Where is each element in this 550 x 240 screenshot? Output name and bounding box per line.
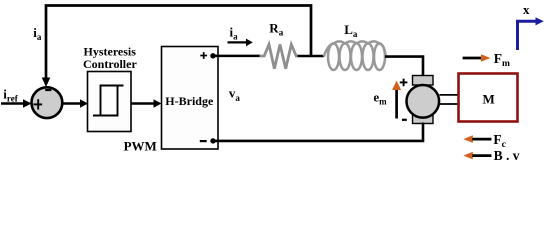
wire summer to hysteresis controller: [63, 102, 81, 105]
motor armature circle: [407, 85, 440, 118]
arrow F_m (motor force): [463, 57, 482, 60]
arrow i_a direction: [228, 41, 247, 43]
wire inductor to motor: [385, 57, 423, 77]
arrow B.v (damping force, leftward): [463, 152, 473, 160]
node minus terminal dot: [210, 138, 215, 143]
motor plus label: [400, 79, 408, 87]
hysteresis relay symbol: [93, 86, 118, 116]
svg-text:B . v: B . v: [494, 148, 520, 163]
arrow F_c (friction force, leftward): [463, 135, 473, 143]
summing junction plus sign: [33, 99, 42, 109]
H-Bridge minus terminal label: [200, 140, 207, 142]
arrow e_m (back EMF, orange tipped up arrow): [395, 90, 398, 119]
wire H-Bridge plus terminal to resistor: [213, 55, 260, 58]
arrowhead into summing junction: [42, 78, 51, 88]
axis x (reference frame, blue): [518, 21, 537, 50]
wire bottom return motor to H-Bridge minus: [213, 123, 423, 141]
summing junction: [32, 87, 63, 118]
svg-text:PWM: PWM: [124, 139, 157, 154]
node plus terminal dot: [210, 53, 215, 58]
svg-text:x: x: [523, 2, 530, 17]
H-Bridge plus terminal label: [200, 52, 207, 59]
motor minus label: [402, 119, 407, 121]
resistor Ra: [260, 44, 299, 68]
H-Bridge block U2: [162, 47, 219, 150]
motor shaft: [440, 94, 460, 96]
hysteresis controller block U1: [88, 72, 132, 132]
motor top brush: [413, 76, 434, 86]
mass block M: [459, 74, 518, 122]
wire feedback loop (node between Ra and La up, across top, down to summer): [46, 6, 311, 80]
summing junction minus sign: [45, 89, 51, 91]
svg-text:H-Bridge: H-Bridge: [165, 94, 214, 108]
svg-text:M: M: [483, 91, 495, 106]
wire resistor to inductor with tap node: [298, 55, 325, 58]
inductor La: [324, 41, 386, 70]
wire hysteresis controller to H-Bridge (PWM signal): [132, 102, 155, 105]
motor bottom brush: [413, 115, 434, 124]
wire input arrow into summer: [1, 102, 24, 105]
svg-text:Controller: Controller: [83, 57, 137, 71]
